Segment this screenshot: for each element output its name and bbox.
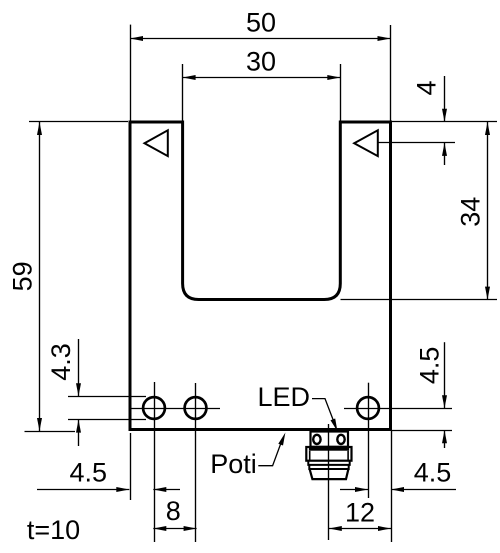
svg-text:50: 50 [246, 7, 276, 37]
svg-text:34: 34 [455, 197, 485, 227]
svg-text:4.3: 4.3 [46, 343, 76, 381]
svg-text:4: 4 [412, 80, 442, 95]
svg-text:30: 30 [246, 47, 276, 77]
svg-text:4.5: 4.5 [70, 457, 108, 487]
svg-text:LED: LED [258, 382, 311, 412]
svg-text:59: 59 [7, 261, 37, 291]
svg-text:t=10: t=10 [27, 515, 80, 545]
svg-text:4.5: 4.5 [414, 347, 444, 385]
svg-text:12: 12 [345, 497, 375, 527]
svg-text:4.5: 4.5 [414, 458, 452, 488]
svg-text:8: 8 [166, 496, 181, 526]
svg-text:Poti: Poti [210, 449, 257, 479]
